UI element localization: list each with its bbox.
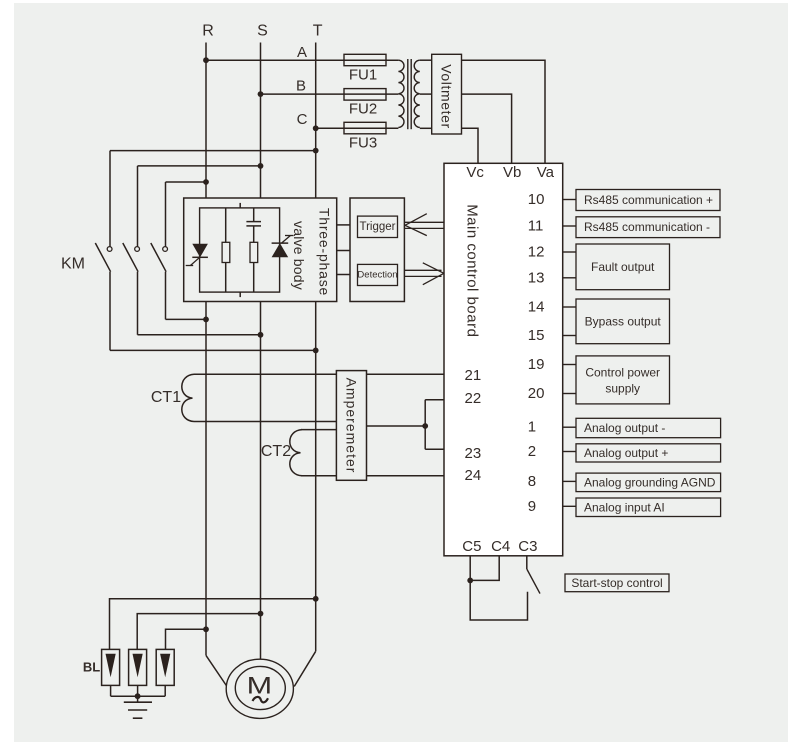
svg-text:15: 15: [528, 327, 545, 344]
svg-text:Analog input AI: Analog input AI: [584, 500, 665, 514]
svg-text:19: 19: [528, 356, 545, 373]
svg-text:valve body: valve body: [291, 221, 307, 290]
svg-text:23: 23: [465, 445, 482, 462]
svg-text:CT2: CT2: [261, 443, 291, 460]
svg-text:11: 11: [528, 218, 544, 235]
svg-text:21: 21: [465, 367, 482, 384]
svg-text:Va: Va: [537, 164, 555, 181]
svg-text:Voltmeter: Voltmeter: [439, 64, 455, 129]
svg-text:8: 8: [528, 473, 536, 490]
svg-text:Vb: Vb: [503, 164, 521, 181]
svg-text:FU1: FU1: [349, 67, 377, 84]
svg-text:Main control board: Main control board: [463, 204, 480, 337]
svg-text:24: 24: [465, 467, 482, 484]
svg-text:Fault output: Fault output: [591, 260, 655, 274]
svg-text:C5: C5: [462, 538, 481, 555]
svg-text:20: 20: [528, 385, 545, 402]
svg-text:Rs485 communication -: Rs485 communication -: [584, 220, 710, 234]
svg-text:R: R: [202, 23, 214, 40]
svg-text:M: M: [247, 672, 273, 699]
svg-text:A: A: [297, 44, 307, 61]
svg-text:Three-phase: Three-phase: [317, 208, 333, 296]
svg-text:Vc: Vc: [466, 164, 484, 181]
svg-text:Amperemeter: Amperemeter: [344, 378, 360, 474]
svg-text:Rs485 communication +: Rs485 communication +: [584, 193, 713, 207]
svg-text:supply: supply: [605, 382, 640, 396]
svg-text:Detection: Detection: [357, 270, 397, 281]
svg-text:Analog output -: Analog output -: [584, 421, 665, 435]
svg-text:C: C: [297, 111, 308, 128]
svg-text:13: 13: [528, 269, 545, 286]
svg-text:12: 12: [528, 244, 545, 261]
svg-text:C4: C4: [491, 538, 510, 555]
svg-text:1: 1: [528, 419, 536, 436]
svg-text:BL: BL: [83, 660, 100, 675]
svg-text:9: 9: [528, 498, 536, 515]
svg-text:S: S: [257, 23, 268, 40]
svg-text:10: 10: [528, 191, 545, 208]
svg-text:2: 2: [528, 443, 536, 460]
svg-text:Start-stop control: Start-stop control: [571, 576, 662, 590]
svg-text:Bypass output: Bypass output: [585, 314, 662, 328]
svg-text:Trigger: Trigger: [360, 221, 396, 233]
svg-text:FU3: FU3: [349, 135, 377, 152]
svg-text:B: B: [296, 78, 306, 95]
svg-text:Control power: Control power: [585, 366, 660, 380]
svg-text:T: T: [313, 23, 323, 40]
svg-text:C3: C3: [518, 538, 537, 555]
svg-text:14: 14: [528, 299, 545, 316]
svg-text:22: 22: [465, 390, 482, 407]
svg-text:Analog grounding AGND: Analog grounding AGND: [584, 475, 716, 489]
svg-text:CT1: CT1: [151, 389, 181, 406]
svg-text:KM: KM: [61, 256, 85, 273]
svg-text:FU2: FU2: [349, 101, 377, 118]
svg-text:Analog output +: Analog output +: [584, 446, 668, 460]
